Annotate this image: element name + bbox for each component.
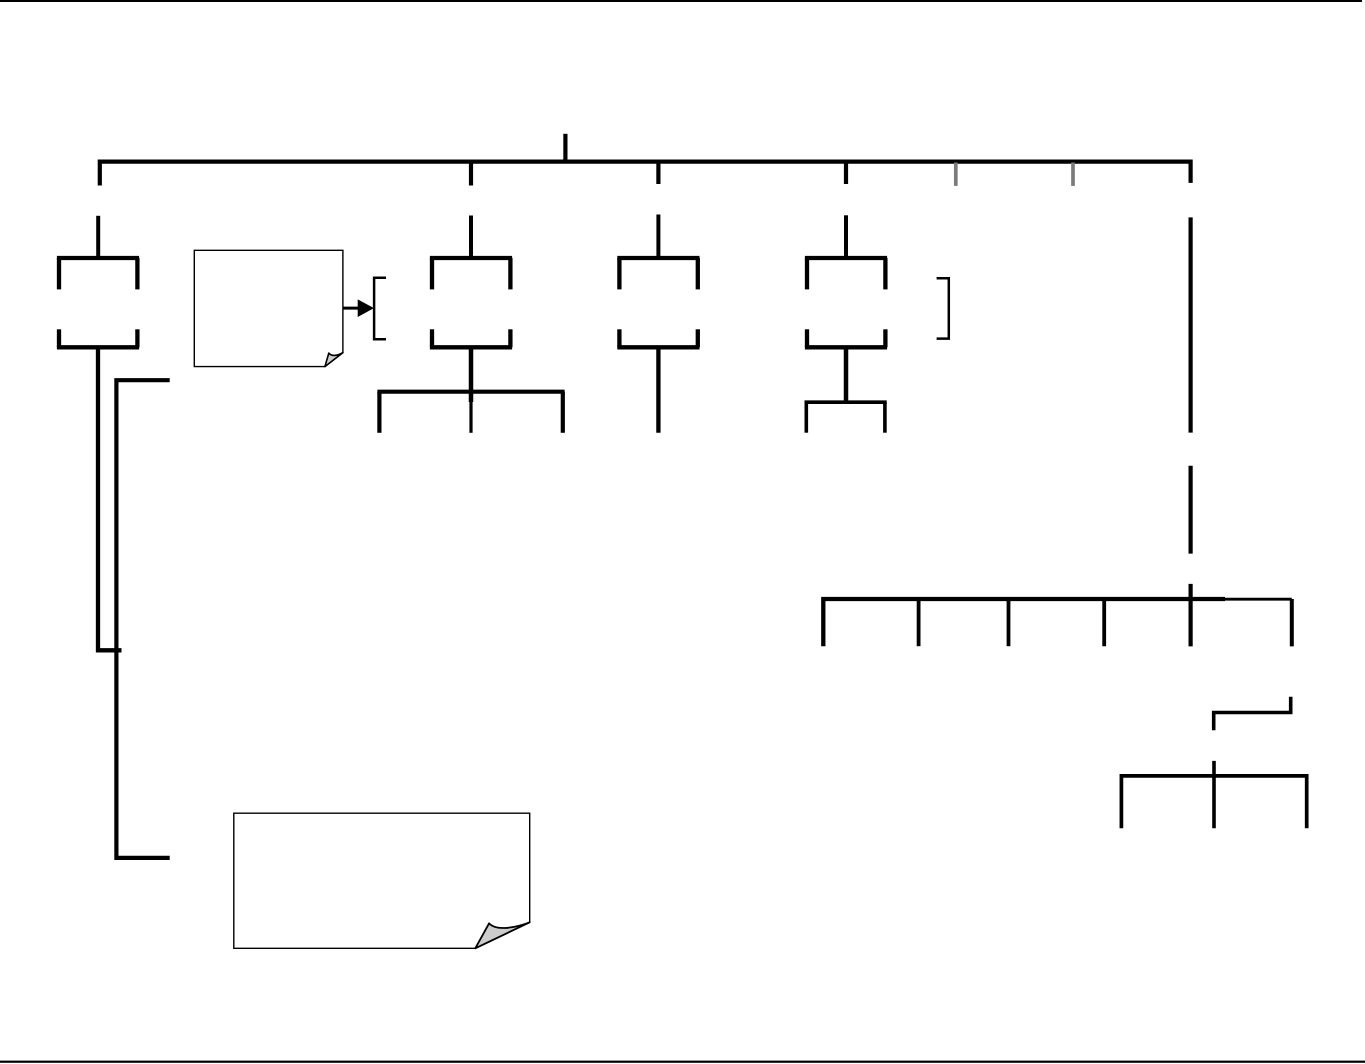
bus SUB (small bottom-right bus) bbox=[1121, 776, 1306, 828]
wire center drop under CB2 T-bar bbox=[469, 392, 472, 433]
wire gray spare drop 2 bbox=[1071, 163, 1075, 186]
arrowhead bbox=[358, 300, 373, 316]
wire dashed feeder segment 3 crossing lower bus bbox=[1188, 584, 1192, 647]
breaker CB4 bbox=[805, 258, 887, 347]
wire stub above CB4 bbox=[844, 215, 848, 258]
wire stub above CB2 bbox=[469, 216, 473, 259]
breaker CB2 bbox=[430, 258, 512, 347]
wire elbow jog to sub-bus bbox=[1214, 697, 1291, 730]
breaker CB3 bbox=[617, 258, 699, 347]
note N2 (large note with folded corner) bbox=[234, 813, 530, 948]
wire bus drop to CB4 bbox=[844, 162, 848, 184]
wire CB1 load drop with elbow foot bbox=[98, 347, 122, 650]
wire dashed feeder segment 2 bbox=[1188, 466, 1192, 554]
bus MAIN (top horizontal bus with end drops) bbox=[100, 162, 1191, 186]
wire incoming tick at top of bus bbox=[563, 134, 567, 162]
bottom border line bbox=[0, 1061, 1365, 1063]
wire lower bus drop 3 bbox=[1007, 599, 1011, 646]
wire lower bus drop 2 bbox=[917, 599, 921, 646]
bus T-bar under CB2 bbox=[377, 392, 564, 433]
bus LOWER thin right tail bbox=[1225, 598, 1292, 601]
wire center riser of sub-bus bbox=[1212, 761, 1216, 828]
wire tall bracket under CB1 bbox=[116, 380, 169, 858]
wire bus drop to CB3 bbox=[656, 162, 660, 184]
bus LOWER (distribution bus) bbox=[823, 599, 1225, 646]
note N1 (callout box with folded corner) bbox=[194, 250, 343, 366]
wire arrow from note N1 bbox=[343, 307, 359, 310]
breaker CB1 bbox=[57, 258, 139, 347]
wire lower bus drop 4 bbox=[1102, 599, 1106, 646]
wire stub above CB3 bbox=[656, 215, 660, 259]
top border band bbox=[0, 0, 1362, 2]
wire stub above CB1 bbox=[96, 216, 100, 258]
bus T-bar under CB4 bbox=[805, 402, 887, 433]
wire CB4 load drop bbox=[844, 347, 849, 402]
wire gray spare drop 1 bbox=[954, 163, 958, 186]
wire CB2 load drop bbox=[469, 347, 474, 402]
bracket right of CB4 bbox=[937, 278, 949, 338]
wire bus drop to CB2 bbox=[469, 162, 473, 186]
wire lower bus right end drop bbox=[1290, 599, 1294, 646]
bracket left of CB2 bbox=[374, 278, 386, 339]
wire CB3 load drop bbox=[656, 347, 660, 432]
wire dashed feeder segment 1 (right riser) bbox=[1188, 217, 1192, 432]
